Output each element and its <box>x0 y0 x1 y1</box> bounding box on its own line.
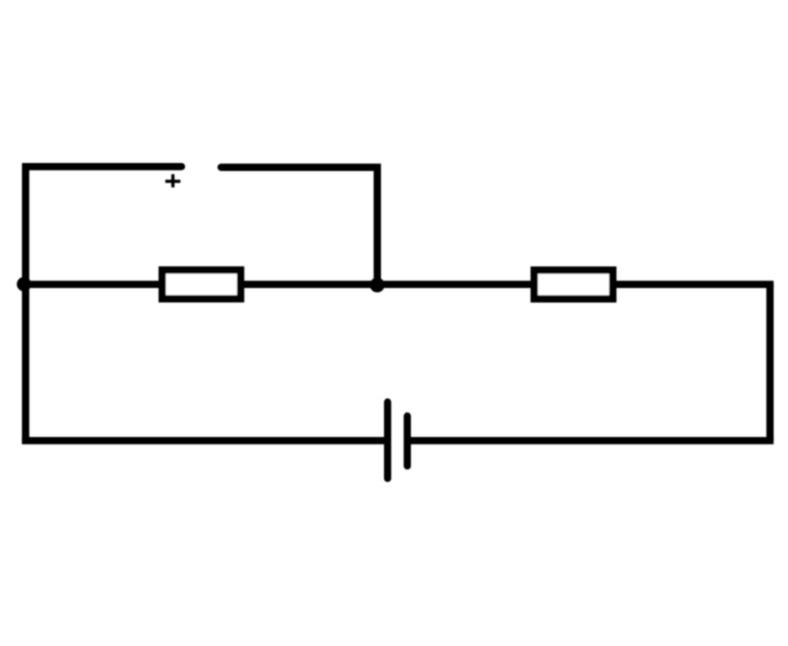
junction node A (left) <box>17 277 31 291</box>
wire: top branch right segment (gap to drop) <box>221 167 377 284</box>
wire: bottom left (to battery positive plate) <box>22 437 388 444</box>
wire: middle horizontal (node A through R1, R2 to right side) <box>22 281 774 288</box>
wire: right vertical <box>766 284 773 440</box>
resistor R1 <box>162 270 240 299</box>
battery B1 long plate <box>384 402 391 478</box>
battery B1 short plate <box>404 416 411 466</box>
resistor R2 <box>534 270 613 299</box>
polarity label + <box>165 174 180 187</box>
wire: bottom right (from battery negative plate) <box>407 437 774 444</box>
wire: top branch left segment (node A to switch gap) <box>26 167 182 441</box>
junction node B (middle) <box>370 278 385 293</box>
